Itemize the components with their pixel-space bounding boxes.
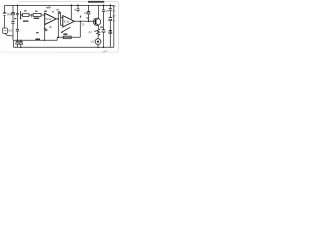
node rail right 2: [109, 5, 111, 7]
capacitor C8 series to IC1b: [58, 11, 60, 14]
wire resistor to jack: [97, 35, 99, 38]
resistor R7 vertical in emitter line: [97, 29, 100, 36]
wire mid vertical below input cap: [16, 15, 18, 29]
svg-text:IC1a: IC1a: [46, 17, 52, 21]
wire top supply rail: [5, 4, 114, 6]
wire left border upper: [4, 5, 6, 12]
page frame: [1, 1, 118, 52]
battery BT1: [3, 13, 6, 15]
microphone MIC1 box: [3, 28, 13, 36]
node on reference line: [17, 40, 19, 42]
capacitor C11: [102, 5, 105, 29]
wire bottom rail: [14, 46, 114, 48]
R2 name speck: [35, 11, 38, 12]
svg-text:+9V: +9V: [46, 6, 51, 10]
label C1 speck: [14, 18, 16, 19]
wire opamp1 output: [56, 18, 58, 20]
wire reference line lower: [14, 39, 58, 41]
wire noninv input down: [44, 25, 46, 29]
wire reference line bend: [56, 37, 58, 40]
svg-text:LS: LS: [91, 40, 94, 44]
svg-text:T1: T1: [82, 23, 86, 27]
capacitor C4 in that line: [16, 29, 19, 31]
capacitor C9 from rail: [76, 5, 79, 12]
electrolytic C12: [102, 30, 105, 48]
wire down from node to pot line: [79, 21, 81, 37]
P1 value label: [63, 33, 67, 35]
capacitor C7 below opamp1: [44, 29, 47, 30]
jack output socket: [95, 39, 101, 45]
electret element bar: [20, 11, 22, 19]
wire output1 up: [57, 13, 59, 19]
wire down to reference line: [44, 31, 46, 41]
R2 value label: [34, 18, 40, 20]
capacitor C1 (vertical, from top rail): [11, 5, 14, 21]
wire into amp2 input: [60, 13, 63, 18]
node rail power pin: [70, 5, 72, 7]
wire bias drop: [16, 5, 18, 13]
wire left border lower: [4, 16, 6, 28]
pin specks above amp1: [44, 11, 47, 12]
op-amp IC1b: [63, 16, 75, 27]
wire collector up: [97, 5, 99, 18]
wire left lower riser: [13, 40, 15, 47]
node rail second: [77, 5, 79, 7]
svg-text:R7: R7: [89, 31, 93, 35]
wire amp2 output to base: [74, 20, 95, 22]
node input junction on rail: [17, 5, 19, 7]
pin speck 7: [87, 17, 89, 18]
capacitor C6 to ground (electrolytic): [19, 40, 22, 47]
svg-text:C4: C4: [84, 11, 88, 15]
R1 value label: [23, 20, 28, 22]
wire R2 to opamp: [41, 15, 45, 16]
capacitor C5 to ground (electrolytic): [16, 42, 19, 48]
electrolytic C14: [109, 18, 112, 48]
wire jack to ground: [97, 45, 99, 48]
resistor R2 box: [33, 14, 41, 17]
node output1: [58, 18, 60, 20]
op-amp IC1a: [45, 13, 57, 24]
node at x80: [80, 21, 82, 23]
capacitor C2 (vertical): [11, 22, 14, 41]
caption speck bottom right: [103, 51, 107, 52]
title bar text top right: [88, 1, 104, 3]
capacitor C3 plates in vertical line: [16, 13, 19, 14]
svg-text:IC1b: IC1b: [64, 19, 70, 23]
label speck C3: [56, 9, 58, 10]
capacitor C13: [109, 5, 112, 17]
wire between R1 R2: [29, 14, 33, 16]
node rail right 1: [103, 5, 105, 7]
svg-text:MIC: MIC: [8, 29, 13, 32]
wire right border: [113, 5, 115, 47]
wire pot line: [57, 36, 80, 38]
electrolytic C15 on right border line: [109, 31, 112, 34]
wire power pin into amp2: [70, 5, 72, 19]
potentiometer P1: [61, 27, 71, 38]
wire emitter down to resistor: [97, 25, 99, 29]
pin speck 1: [80, 16, 81, 18]
mic detail marks: [4, 30, 7, 32]
label blob on reference line: [36, 32, 39, 33]
resistor R1 box: [22, 14, 29, 17]
wire amp2 input stub lower: [61, 18, 63, 26]
wire output1 down: [57, 19, 59, 37]
capacitor C10 from rail to base line: [87, 5, 90, 21]
R1 name speck: [24, 10, 27, 11]
node: [44, 28, 46, 30]
transistor T1: [93, 18, 100, 25]
wire to R1: [21, 14, 23, 16]
